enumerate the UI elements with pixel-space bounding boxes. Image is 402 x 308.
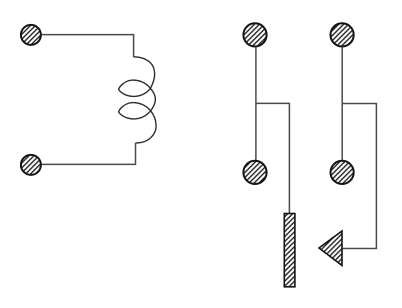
contact bar (hatched rectangle) bbox=[284, 214, 295, 287]
wire column 1 vertical bbox=[255, 47, 257, 161]
wire column 2 vertical bbox=[341, 47, 343, 161]
wire from coil bottom to P2 bbox=[41, 143, 135, 164]
wire branch 1 to contact bar bbox=[256, 103, 290, 213]
terminal P5 (contact 2, top) bbox=[331, 23, 354, 46]
relay coil L1 bbox=[119, 57, 157, 143]
contact arrow (hatched triangle) bbox=[319, 231, 342, 266]
terminal P4 (contact 1, bottom) bbox=[243, 161, 266, 184]
wire branch 2 to contact arrow bbox=[342, 104, 376, 249]
terminal P2 (coil terminal, bottom-left) bbox=[21, 155, 41, 175]
terminal P1 (coil terminal, top-left) bbox=[21, 25, 41, 45]
terminal P3 (contact 1, top) bbox=[243, 23, 266, 46]
wire from P1 to coil top bbox=[41, 35, 133, 57]
terminal P6 (contact 2, bottom) bbox=[331, 161, 354, 184]
